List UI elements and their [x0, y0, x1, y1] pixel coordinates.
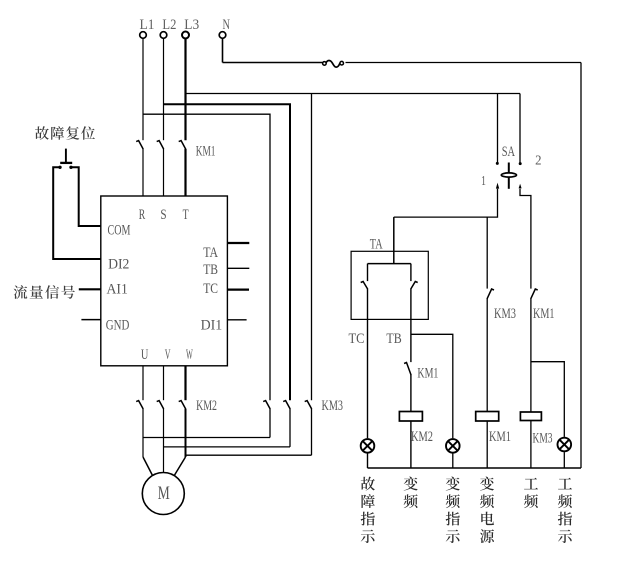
svg-text:TA: TA: [370, 237, 383, 253]
coil KM2: [399, 412, 422, 422]
coil KM1: [476, 412, 499, 422]
wire KM1 coil to bus: [486, 421, 488, 468]
lamp HL1 fault: [361, 439, 375, 453]
wire N to fuse: [223, 62, 323, 64]
wire relay feeder: [393, 217, 395, 264]
motor lead U diagonal: [143, 457, 153, 476]
wire tap L2 to KM3 bypass (node y104): [164, 104, 291, 400]
svg-text:KM1: KM1: [533, 306, 555, 322]
label fault reset (gu zhang fu wei): [35, 126, 49, 140]
wire tap to HL3: [531, 362, 564, 437]
wire KM3 coil to bus: [530, 421, 532, 469]
wire V down: [163, 366, 165, 400]
wire TB branch down: [410, 289, 412, 362]
terminal L3: [182, 32, 189, 39]
wire KM1 contact to inverter R: [142, 149, 144, 196]
label vfd indication column: [446, 477, 460, 491]
svg-text:V: V: [165, 347, 171, 363]
wire to SA pole 1: [497, 94, 499, 164]
svg-text:U: U: [141, 347, 149, 363]
label mains indication column: [558, 478, 572, 490]
svg-text:L2: L2: [162, 17, 176, 33]
label flow signal (liu liang xin hao): [14, 285, 28, 299]
svg-text:T: T: [183, 207, 189, 223]
svg-text:KM2: KM2: [411, 429, 433, 445]
wire TC branch down: [367, 289, 369, 439]
svg-text:L1: L1: [140, 17, 155, 33]
wire HL2 to bus: [452, 454, 454, 469]
svg-text:KM2: KM2: [196, 398, 217, 414]
contact KM1 aux (SA2 branch): [531, 289, 538, 299]
wire L1 to KM1 contact: [142, 38, 144, 140]
contactor KM1 main contact phase T: [179, 141, 186, 150]
wire KM3 aux to KM1 coil: [486, 299, 488, 412]
coil KM3: [520, 412, 541, 421]
svg-text:TB: TB: [386, 331, 401, 347]
terminal L1: [140, 32, 147, 39]
wire KM1 contact to inverter S: [163, 149, 165, 196]
svg-text:TA: TA: [203, 245, 218, 261]
svg-text:DI1: DI1: [201, 317, 223, 333]
svg-text:KM3: KM3: [322, 398, 344, 414]
wire SB left to DI2: [53, 167, 101, 259]
wire rail W-bypass3: [186, 454, 312, 456]
svg-text:GND: GND: [106, 317, 130, 333]
svg-text:2: 2: [535, 153, 541, 168]
label vfd power column: [480, 477, 494, 491]
inverter U1 box: [101, 196, 228, 366]
wire relay common bar: [368, 263, 411, 265]
wire HL3 to bus: [563, 452, 565, 468]
svg-text:AI1: AI1: [107, 281, 128, 297]
wire L3 to KM1 contact: [184, 38, 186, 140]
wire rail U-bypass1: [143, 437, 270, 439]
wire U down: [142, 366, 144, 400]
wire U to motor node: [142, 409, 144, 457]
svg-text:W: W: [186, 347, 193, 363]
wire tap L3 to control circuit (node y93): [186, 93, 521, 95]
wire KM3 c2 down: [289, 409, 291, 447]
wire KM1 aux to KM3 coil: [530, 299, 532, 412]
svg-text:KM1: KM1: [489, 429, 511, 445]
wire HL1 to bus: [367, 454, 369, 469]
wire branch down from SA1 node: [486, 217, 488, 289]
fuse FU on N line: [326, 61, 340, 68]
svg-text:M: M: [158, 483, 170, 504]
wire right rail down: [580, 63, 582, 469]
label mains column: [524, 478, 538, 490]
wire SB right to COM: [71, 167, 101, 226]
svg-text:TC: TC: [203, 281, 218, 297]
contactor KM1 main contact phase S: [157, 141, 164, 150]
svg-text:S: S: [160, 207, 166, 223]
wire stub TA: [227, 242, 249, 244]
wire W down: [184, 366, 186, 400]
svg-text:N: N: [223, 17, 231, 33]
relay contact TC (left): [367, 264, 369, 282]
wire branch down to KM3 bypass phase 3: [311, 94, 313, 401]
svg-text:KM3: KM3: [533, 431, 553, 447]
terminal L2: [160, 32, 167, 39]
wire V to motor node: [163, 409, 165, 473]
contactor KM2 main contact V: [157, 401, 164, 409]
contactor KM1 main contact phase R: [136, 141, 143, 150]
wire fuse to right rail: [346, 62, 582, 64]
relay contact TB (right): [410, 264, 412, 282]
contactor KM3 bypass contact 2: [283, 401, 290, 409]
contactor KM2 main contact W: [179, 401, 186, 409]
wire KM3 c1 down: [269, 409, 271, 438]
wire flow signal to AI1: [79, 288, 101, 290]
wire W to motor node: [185, 409, 187, 457]
svg-text:DI2: DI2: [108, 257, 129, 273]
wire rail V-bypass2: [164, 446, 291, 448]
selector SA symbol: [496, 162, 499, 165]
lamp HL3 mains-run: [558, 438, 572, 452]
wire stub TC: [227, 289, 249, 291]
pushbutton SB actuator: [65, 149, 67, 162]
contact KM1 aux (TB branch): [404, 363, 411, 376]
pushbutton SB contacts: [58, 166, 61, 169]
wire SA2 jog to KM1 branch: [520, 189, 531, 289]
label vfd column: [404, 477, 418, 491]
wire KM3 c3 down: [311, 409, 313, 456]
svg-text:SA: SA: [502, 144, 515, 160]
relay box outline: [351, 251, 428, 319]
terminal N: [219, 32, 226, 39]
lamp HL2 vfd-run: [446, 439, 460, 453]
svg-text:1: 1: [481, 174, 486, 189]
svg-text:R: R: [139, 207, 146, 223]
wire N down: [222, 38, 224, 62]
contactor KM3 bypass contact 1: [263, 401, 270, 409]
contactor KM2 main contact U: [136, 401, 143, 409]
wire L2 to KM1 contact: [163, 38, 165, 140]
contactor KM3 bypass contact 3: [305, 401, 312, 409]
wire SA1 to relay TA feeder: [394, 189, 498, 217]
wire TB tap to HL2: [411, 334, 453, 438]
wire to SA pole 2: [519, 94, 521, 164]
wire stub GND: [81, 319, 100, 321]
motor lead W diagonal: [174, 457, 185, 476]
svg-text:COM: COM: [108, 222, 131, 238]
wire KM1 aux to KM2 coil: [410, 375, 412, 412]
wire KM2 coil to bus: [410, 421, 412, 468]
wire tap L1 to KM3 bypass (node y114): [143, 114, 270, 400]
wire stub DI1: [227, 319, 246, 321]
svg-text:TB: TB: [203, 262, 218, 278]
wire stub TB: [227, 267, 249, 269]
wire bottom bus: [368, 467, 582, 469]
contact KM3 aux: [487, 289, 494, 299]
svg-text:KM3: KM3: [494, 306, 516, 322]
svg-text:KM1: KM1: [196, 143, 216, 159]
svg-text:L3: L3: [184, 17, 199, 33]
svg-text:TC: TC: [349, 331, 365, 347]
svg-text:KM1: KM1: [417, 365, 438, 381]
label fault indication column: [361, 477, 375, 491]
wire KM1 contact to inverter T: [184, 149, 186, 196]
motor M1: [142, 473, 184, 515]
